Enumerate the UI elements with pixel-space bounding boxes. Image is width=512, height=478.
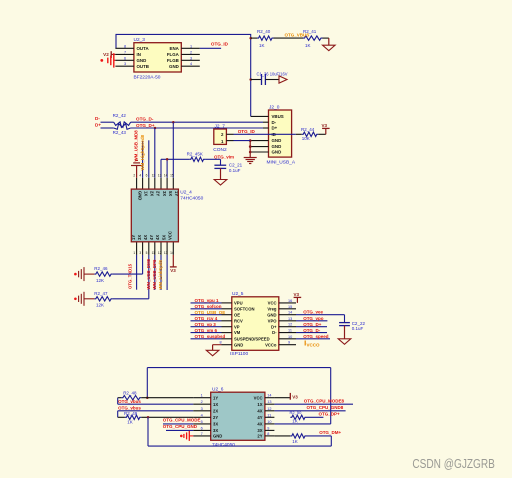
svg-text:V2: V2 [103,52,109,57]
svg-text:U2_3: U2_3 [134,37,146,43]
svg-text:GND: GND [234,342,243,347]
svg-text:74HC4050: 74HC4050 [180,196,203,202]
svg-text:R2_45K: R2_45K [187,152,203,157]
svg-text:3: 3 [139,251,141,255]
svg-text:GND: GND [272,138,282,143]
svg-text:VBUS: VBUS [272,114,284,119]
svg-text:R2_44: R2_44 [301,127,315,132]
svg-text:VCCO: VCCO [307,342,321,347]
svg-text:1X: 1X [143,191,148,196]
svg-text:U2_5: U2_5 [232,291,244,297]
svg-text:2Y: 2Y [213,415,218,420]
svg-text:FLGA: FLGA [167,52,180,57]
svg-text:D+: D+ [95,123,101,128]
svg-text:10: 10 [267,420,271,424]
svg-text:GND: GND [272,144,282,149]
svg-text:5: 5 [146,251,148,255]
svg-text:6: 6 [201,426,203,430]
svg-text:OTG_USB_OE: OTG_USB_OE [195,310,226,315]
svg-text:OTG_CPU_MODE: OTG_CPU_MODE [163,418,201,423]
svg-text:GND: GND [137,58,147,63]
svg-text:13: 13 [267,400,271,404]
svg-text:4X: 4X [155,235,160,240]
svg-text:GND: GND [267,312,276,317]
svg-text:J2_0: J2_0 [269,104,280,110]
svg-text:OTG_vm 6: OTG_vm 6 [195,328,218,333]
svg-text:OTG_vbus: OTG_vbus [118,406,141,411]
svg-text:3X: 3X [137,235,142,240]
svg-text:1X: 1X [257,402,262,407]
svg-text:OTG_CPU_MODE8: OTG_CPU_MODE8 [304,399,345,404]
svg-text:OTG_speed: OTG_speed [303,334,329,339]
svg-text:3X: 3X [257,428,262,433]
svg-text:16: 16 [288,299,292,303]
svg-text:8: 8 [267,432,269,436]
svg-text:13: 13 [164,251,168,255]
svg-text:1K: 1K [292,439,298,444]
svg-text:5: 5 [201,420,203,424]
svg-text:1K: 1K [259,43,265,48]
svg-text:1K: 1K [127,419,133,424]
svg-text:VPU: VPU [234,301,243,306]
svg-text:WM_LinkSpd8: WM_LinkSpd8 [158,260,163,290]
svg-text:SUSPEND/SPEED: SUSPEND/SPEED [234,336,270,341]
svg-text:V3: V3 [292,395,298,400]
svg-text:R2_40: R2_40 [257,29,271,34]
svg-text:0.1uF: 0.1uF [229,168,241,173]
svg-text:10K: 10K [302,136,310,141]
svg-text:OTG_ID: OTG_ID [211,41,229,46]
svg-text:OTG_suspbsd: OTG_suspbsd [195,334,226,339]
svg-text:OTG_DP+: OTG_DP+ [319,412,341,417]
svg-text:VCC: VCC [168,231,173,240]
svg-text:VM: VM [234,330,241,335]
svg-text:1K: 1K [292,419,298,424]
svg-text:4X: 4X [257,408,262,413]
svg-text:C1_36 10uF/16V: C1_36 10uF/16V [257,71,288,76]
svg-text:WM_HighSpeed8: WM_HighSpeed8 [140,134,145,170]
svg-text:1: 1 [133,251,135,255]
svg-text:V3: V3 [170,268,176,273]
svg-text:1: 1 [201,394,203,398]
svg-text:14: 14 [288,311,292,315]
svg-text:2X: 2X [150,191,155,196]
svg-text:12K: 12K [96,303,104,308]
svg-text:0.1uF: 0.1uF [352,326,364,331]
svg-text:VCCo: VCCo [265,342,277,347]
svg-text:OTG_ID: OTG_ID [238,129,256,134]
svg-text:3X: 3X [213,422,218,427]
svg-text:GND: GND [169,64,179,69]
svg-text:OTG_vbus: OTG_vbus [118,399,141,404]
svg-text:2: 2 [201,400,203,404]
svg-text:8: 8 [124,44,126,48]
svg-text:U2_4: U2_4 [180,190,192,196]
svg-text:8: 8 [220,341,222,345]
svg-text:V3: V3 [294,292,300,297]
svg-text:FLGB: FLGB [167,58,179,63]
svg-text:2Y: 2Y [156,191,161,196]
svg-text:GND: GND [213,434,222,439]
svg-text:R2_46: R2_46 [94,266,108,271]
svg-text:13: 13 [158,174,162,178]
svg-text:IN: IN [137,52,141,57]
svg-text:9: 9 [288,341,290,345]
svg-text:OTG_vpu 1: OTG_vpu 1 [195,298,220,303]
svg-text:OUTA: OUTA [137,46,150,51]
svg-text:12: 12 [267,407,271,411]
svg-text:D+: D+ [272,126,278,131]
svg-text:R2_48: R2_48 [123,391,137,396]
svg-text:15: 15 [288,305,292,309]
svg-text:4: 4 [190,62,192,66]
svg-text:OTG_vim: OTG_vim [214,154,234,159]
svg-text:74HC4050: 74HC4050 [212,442,235,448]
svg-text:4: 4 [201,413,203,417]
svg-text:R2_47: R2_47 [94,291,108,296]
svg-text:6: 6 [124,56,126,60]
svg-text:D-: D- [95,116,100,121]
svg-text:OTG_D-: OTG_D- [136,117,154,122]
svg-text:7: 7 [201,432,203,436]
svg-text:Vreg: Vreg [267,306,277,311]
svg-text:7: 7 [124,50,126,54]
svg-text:OTG_vpo: OTG_vpo [303,316,324,321]
svg-text:1X: 1X [213,402,218,407]
svg-text:11: 11 [152,251,156,255]
svg-text:D-: D- [272,120,277,125]
svg-text:R2_42: R2_42 [113,113,127,118]
svg-text:3X: 3X [162,191,167,196]
svg-text:WM_USB_DM8: WM_USB_DM8 [146,258,151,289]
svg-text:OE: OE [234,312,240,317]
svg-text:11: 11 [267,413,271,417]
svg-text:MINI_USB_A: MINI_USB_A [267,160,296,166]
svg-text:J2_7: J2_7 [215,124,226,130]
svg-text:CSDN @GJZGRB: CSDN @GJZGRB [412,456,495,471]
svg-text:5X: 5X [161,235,166,240]
svg-text:10: 10 [288,335,292,339]
svg-text:3: 3 [201,407,203,411]
svg-text:12: 12 [152,174,156,178]
svg-text:OTG_vp 3: OTG_vp 3 [195,322,217,327]
svg-text:U2_6: U2_6 [212,386,224,392]
svg-text:CON2: CON2 [213,147,227,153]
svg-text:VCC: VCC [268,301,277,306]
svg-text:1K: 1K [305,43,311,48]
svg-text:VCC: VCC [254,395,263,400]
svg-text:14: 14 [267,394,271,398]
svg-text:GND: GND [272,150,282,155]
svg-text:3: 3 [124,62,126,66]
svg-text:13: 13 [288,317,292,321]
svg-text:ENA: ENA [170,46,180,51]
svg-text:ISP1100: ISP1100 [230,351,248,357]
svg-text:6: 6 [146,174,148,178]
svg-text:V3: V3 [322,123,328,128]
svg-text:SOFTCON: SOFTCON [234,306,254,311]
svg-text:VP: VP [234,324,240,329]
svg-text:12: 12 [288,323,292,327]
svg-text:4X: 4X [257,422,262,427]
svg-text:2: 2 [133,174,135,178]
svg-text:2Y: 2Y [257,434,262,439]
svg-text:OTG_sofcon: OTG_sofcon [195,304,222,309]
svg-text:OUTB: OUTB [137,64,149,69]
svg-text:R2_50: R2_50 [290,410,303,415]
svg-text:OTG_D-: OTG_D- [303,328,321,333]
svg-text:1Y: 1Y [213,395,218,400]
svg-text:R2_49: R2_49 [124,411,138,416]
svg-text:WM_USB_DP8: WM_USB_DP8 [152,259,157,289]
svg-text:15: 15 [170,174,174,178]
svg-text:OTG_DM+: OTG_DM+ [319,430,341,435]
svg-text:OTG_rcv 4: OTG_rcv 4 [195,316,218,321]
svg-text:4: 4 [139,174,141,178]
svg-text:12: 12 [158,251,162,255]
svg-text:OTG_TXD15: OTG_TXD15 [128,263,133,289]
svg-text:OTG_CPU_GND: OTG_CPU_GND [163,424,198,429]
svg-text:BF2220A-50: BF2220A-50 [134,74,161,80]
svg-text:D-: D- [272,330,277,335]
svg-text:3: 3 [190,56,192,60]
svg-text:OTG_D+: OTG_D+ [136,123,155,128]
svg-text:OTG_CPU_GND8: OTG_CPU_GND8 [307,405,344,410]
svg-text:3X: 3X [213,428,218,433]
svg-text:1: 1 [190,44,192,48]
svg-text:GND: GND [137,191,142,200]
svg-text:4Y: 4Y [149,235,154,240]
svg-text:14: 14 [170,251,174,255]
svg-text:2: 2 [190,50,192,54]
svg-text:11: 11 [288,329,292,333]
svg-text:4Y: 4Y [257,415,262,420]
svg-text:4X: 4X [143,235,148,240]
svg-text:R2_43: R2_43 [113,130,127,135]
svg-text:12K: 12K [96,278,104,283]
svg-text:1Y: 1Y [131,235,136,240]
svg-text:9: 9 [267,426,269,430]
svg-text:OTG_vee: OTG_vee [303,310,323,315]
svg-text:14: 14 [164,174,168,178]
svg-text:OTG_VBUS: OTG_VBUS [285,33,310,38]
svg-text:OTG_D+: OTG_D+ [303,322,322,327]
svg-text:RCV: RCV [234,318,243,323]
svg-text:WM_USB_MD8: WM_USB_MD8 [134,130,139,162]
svg-text:1Y: 1Y [174,191,179,196]
svg-text:5X: 5X [168,191,173,196]
svg-text:D+: D+ [271,324,277,329]
svg-text:2X: 2X [213,408,218,413]
svg-text:VPO: VPO [268,318,278,323]
